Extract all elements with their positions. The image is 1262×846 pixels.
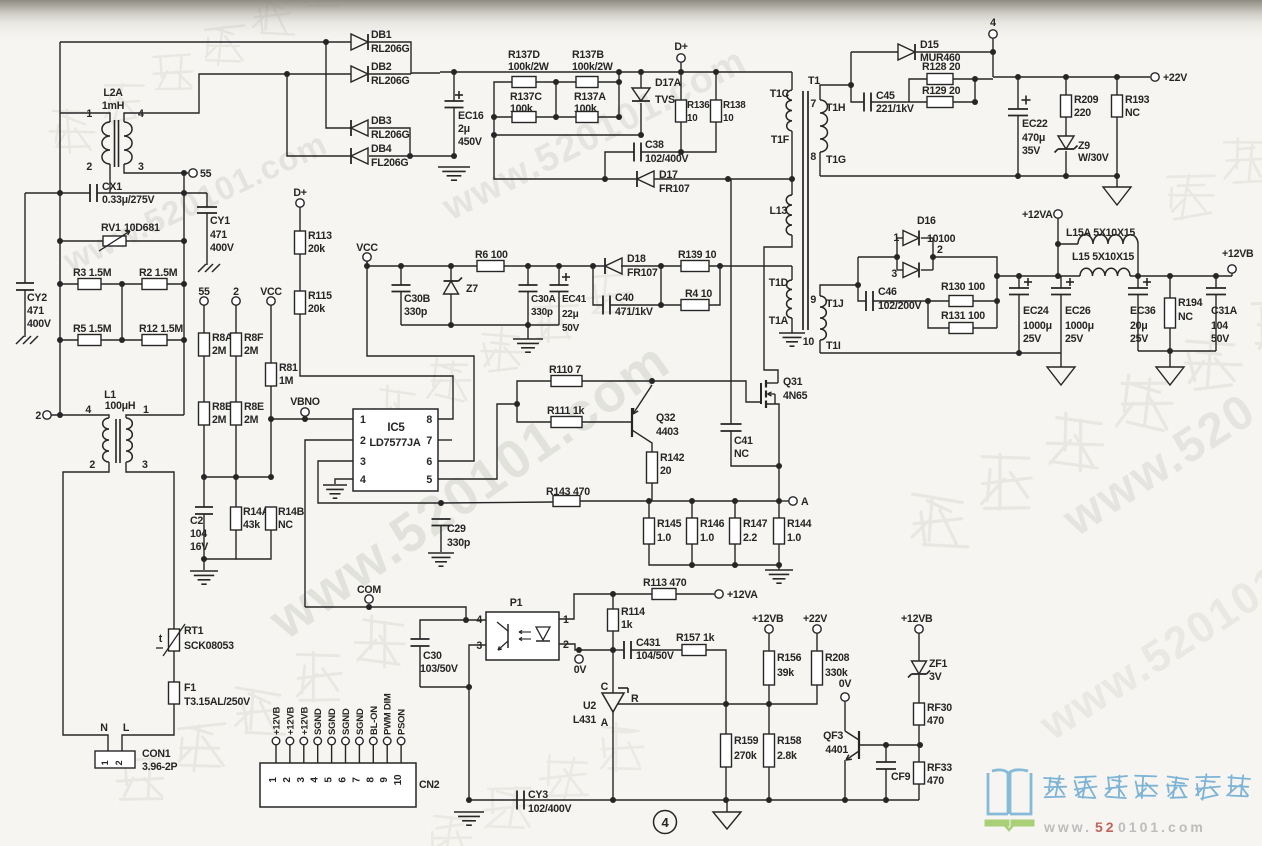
wire (918, 725, 920, 745)
resistor R113 (299, 207, 301, 231)
svg-text:+12VB: +12VB (272, 707, 283, 735)
node junction (201, 474, 207, 480)
svg-text:25V: 25V (1065, 333, 1083, 345)
capacitor C31A (1215, 276, 1217, 288)
TVS diode D17A (640, 72, 642, 88)
svg-text:9: 9 (379, 777, 390, 783)
svg-text:20: 20 (660, 465, 672, 477)
svg-text:R8F: R8F (244, 332, 264, 344)
node junction (1063, 173, 1069, 179)
resistor R2 (101, 283, 142, 285)
ground (765, 569, 793, 571)
wire DB2 row (287, 73, 351, 75)
svg-text:SCK08053: SCK08053 (184, 640, 234, 652)
svg-text:P1: P1 (510, 597, 523, 609)
pin 2 CN2 +12VB (286, 737, 294, 745)
svg-text:Z9: Z9 (1078, 140, 1090, 152)
wire (235, 356, 237, 402)
svg-text:ZF1: ZF1 (929, 658, 947, 670)
node junction (610, 647, 616, 653)
svg-text:C45: C45 (876, 90, 895, 102)
svg-text:NC: NC (1125, 107, 1140, 119)
svg-text:C2: C2 (190, 515, 203, 527)
wire D16 cathodes (921, 237, 933, 239)
svg-text:EC16: EC16 (458, 110, 484, 122)
svg-text:2: 2 (282, 777, 293, 783)
node junction (181, 190, 187, 196)
svg-text:R: R (631, 693, 639, 705)
svg-text:1000μ: 1000μ (1023, 320, 1052, 332)
svg-text:9: 9 (810, 294, 816, 306)
node junction (855, 282, 861, 288)
svg-text:1000μ: 1000μ (1065, 320, 1094, 332)
svg-text:39k: 39k (777, 667, 794, 679)
resistor R137D (512, 77, 536, 88)
svg-text:10: 10 (687, 113, 698, 124)
zener Z9 (1065, 117, 1067, 136)
watermark text (912, 494, 968, 547)
resistor R6 (477, 261, 504, 272)
svg-text:PSON: PSON (397, 709, 408, 735)
svg-text:R128 20: R128 20 (922, 61, 961, 73)
wire T1H pin7 (820, 85, 851, 100)
capacitor EC16 (453, 72, 455, 101)
svg-text:R2 1.5M: R2 1.5M (139, 267, 178, 279)
wire T1I pin10 (819, 340, 821, 353)
watermark text (1167, 175, 1214, 219)
resistor R156 (768, 633, 770, 651)
node junction (201, 556, 207, 562)
diode D17 (637, 171, 654, 187)
node junction (994, 273, 1000, 279)
connector CON1 (95, 751, 135, 768)
wire (725, 767, 727, 800)
svg-text:R147: R147 (743, 518, 768, 530)
svg-text:R156: R156 (777, 652, 802, 664)
watermark text (427, 816, 473, 846)
svg-text:EC22: EC22 (1022, 118, 1048, 130)
wire DB4 anode (369, 155, 454, 157)
wire (504, 265, 605, 267)
wire (612, 594, 614, 609)
pin 6 CN2 SGND (342, 737, 350, 745)
winding T1H T1G (820, 100, 827, 152)
resistor R208 (816, 633, 818, 651)
resistor R12 (101, 339, 142, 341)
svg-text:D17A: D17A (655, 77, 682, 89)
svg-text:EC36: EC36 (1130, 305, 1156, 317)
ground (190, 570, 218, 572)
pin 7 CN2 SGND (356, 737, 364, 745)
svg-text:R159: R159 (734, 735, 759, 747)
node 0V terminal (576, 647, 582, 653)
capacitor C431 (613, 649, 624, 651)
svg-text:3: 3 (138, 161, 144, 173)
transistor Q31 4N65 (760, 383, 762, 404)
resistor R194 (1169, 276, 1171, 298)
ground (1047, 367, 1075, 385)
svg-text:8: 8 (365, 777, 376, 783)
node junction (723, 701, 729, 707)
wire resistor bottoms (649, 544, 779, 565)
resistor R5 (60, 339, 78, 341)
svg-text:1.0: 1.0 (700, 532, 714, 544)
wire (681, 122, 716, 152)
wire IC5 pin3 (318, 461, 441, 503)
wire R129 right (953, 79, 975, 102)
resistor R111 (551, 417, 582, 428)
ground (438, 166, 470, 168)
svg-text:T1G: T1G (826, 154, 846, 166)
wire 22V return rail (820, 175, 1117, 177)
node junction (848, 82, 854, 88)
node junction (1055, 241, 1061, 247)
resistor R193 (1116, 77, 1118, 95)
ground (454, 811, 484, 813)
thermistor RT1 (169, 629, 180, 651)
wire VBNO row (271, 418, 353, 420)
svg-text:2: 2 (360, 435, 366, 447)
svg-text:CX1: CX1 (102, 181, 122, 193)
svg-text:RL206G: RL206G (371, 129, 410, 141)
svg-text:R193: R193 (1125, 94, 1150, 106)
wire (236, 530, 271, 559)
svg-text:www.520101.com: www.520101.com (258, 330, 681, 651)
node junction (972, 76, 978, 82)
svg-text:L15 5X10X15: L15 5X10X15 (1072, 251, 1134, 263)
svg-text:FR107: FR107 (659, 183, 690, 195)
wire DC+ rail (440, 71, 792, 73)
inductor L13 (786, 195, 792, 235)
svg-text:C46: C46 (878, 286, 897, 298)
wire (1137, 244, 1139, 276)
svg-text:VBNO: VBNO (290, 396, 320, 408)
watermark text (117, 758, 163, 799)
logo text (1044, 776, 1066, 797)
wire CX1 row (25, 192, 90, 194)
svg-text:R194: R194 (1178, 297, 1203, 309)
resistor R114 (608, 609, 619, 631)
svg-text:102/400V: 102/400V (528, 803, 572, 815)
wire D16 mid (858, 256, 897, 258)
svg-text:10: 10 (803, 336, 815, 348)
capacitor C30A (527, 266, 529, 285)
resistor R158 (768, 704, 770, 734)
svg-text:R14B: R14B (278, 506, 305, 518)
wire IC5 pin2 to COM (305, 440, 353, 607)
svg-text:4: 4 (360, 474, 366, 486)
svg-text:C431: C431 (636, 637, 661, 649)
node junction (181, 170, 187, 176)
svg-text:0101.com: 0101.com (1118, 819, 1206, 835)
ground (16, 336, 24, 344)
svg-text:1: 1 (86, 108, 92, 120)
node junction (463, 617, 469, 623)
svg-text:T1I: T1I (826, 340, 841, 352)
svg-text:T1C: T1C (770, 88, 790, 100)
svg-text:PWM DIM: PWM DIM (383, 693, 394, 735)
svg-text:100k: 100k (574, 103, 597, 115)
wire (680, 122, 682, 152)
ground (713, 812, 741, 829)
capacitor C30B (400, 266, 402, 285)
wire L2A pin2 (109, 164, 111, 193)
svg-text:R208: R208 (825, 652, 850, 664)
svg-text:20k: 20k (308, 303, 325, 315)
ground (323, 484, 347, 486)
wire (768, 685, 770, 704)
wire gate (652, 381, 761, 402)
wire +22V rail (993, 76, 1150, 78)
svg-text:+12VB: +12VB (285, 707, 296, 735)
svg-text:C: C (601, 681, 609, 693)
svg-text:R3 1.5M: R3 1.5M (73, 267, 112, 279)
svg-text:330p: 330p (404, 306, 428, 318)
svg-text:R8E: R8E (244, 401, 264, 413)
svg-text:471: 471 (27, 305, 44, 317)
wire VCC rail (366, 261, 368, 266)
wire L1 pin2 down (63, 462, 109, 751)
node junction (323, 39, 329, 45)
svg-text:2M: 2M (212, 414, 227, 426)
resistor R147 (730, 518, 741, 544)
wire P1 pin2 row (559, 644, 613, 650)
svg-text:N: N (100, 722, 107, 734)
svg-text:R114: R114 (621, 606, 645, 618)
svg-text:1: 1 (268, 777, 279, 783)
resistor R129 (909, 101, 927, 103)
wire R110 right (582, 380, 652, 382)
svg-text:2: 2 (563, 639, 569, 651)
svg-text:10D681: 10D681 (124, 222, 160, 234)
svg-text:4401: 4401 (825, 744, 848, 756)
svg-text:450V: 450V (458, 136, 482, 148)
wire (613, 593, 652, 595)
wire (973, 300, 997, 302)
svg-text:SGND: SGND (313, 708, 324, 735)
svg-text:52: 52 (1095, 819, 1117, 835)
svg-text:F1: F1 (184, 682, 196, 694)
svg-text:www.520101: www.520101 (1030, 556, 1262, 750)
node junction (776, 463, 782, 469)
svg-text:FR107: FR107 (627, 267, 658, 279)
wire L2A pin1 (60, 113, 110, 122)
svg-text:100μH: 100μH (105, 400, 136, 412)
svg-text:T1A: T1A (769, 315, 789, 327)
wire (660, 266, 662, 305)
svg-text:5: 5 (324, 777, 335, 783)
svg-text:+12VB: +12VB (752, 613, 784, 625)
wire 12VA drop (1057, 218, 1059, 276)
diode DB4 (351, 148, 368, 164)
svg-text:3.96-2P: 3.96-2P (142, 761, 178, 773)
wire cathode to rail (933, 257, 997, 328)
node junction (678, 69, 684, 75)
svg-text:NC: NC (734, 448, 749, 460)
node junction (602, 176, 608, 182)
diode DB1 (351, 34, 368, 50)
wire L2A pin3 to node 55 (124, 164, 188, 173)
svg-text:D+: D+ (674, 41, 687, 53)
ground (779, 332, 805, 334)
svg-text:R157 1k: R157 1k (676, 632, 715, 644)
winding T1J T1I (820, 296, 826, 340)
svg-text:A: A (801, 496, 809, 508)
svg-text:+12VA: +12VA (727, 589, 758, 601)
wire AC line top (60, 41, 326, 43)
ground (1156, 367, 1184, 385)
svg-text:1: 1 (100, 760, 110, 765)
capacitor C2 (195, 506, 213, 508)
capacitor EC22 (1017, 77, 1019, 109)
svg-text:EC26: EC26 (1065, 305, 1091, 317)
node junction (725, 176, 731, 182)
svg-text:DB1: DB1 (371, 29, 392, 41)
svg-text:4: 4 (662, 815, 670, 830)
ground (1103, 187, 1131, 205)
wire RT1 to F1 (173, 651, 175, 682)
svg-text:7: 7 (810, 98, 816, 110)
svg-text:SGND: SGND (327, 708, 338, 735)
svg-text:C30B: C30B (404, 293, 431, 305)
resistor R14A (235, 477, 237, 507)
node junction (1016, 273, 1022, 279)
node junction (438, 500, 444, 506)
pin 8 CN2 BL-ON (370, 737, 378, 745)
node junction (407, 153, 413, 159)
capacitor CY3 (516, 791, 518, 810)
svg-text:50V: 50V (562, 323, 580, 334)
svg-text:R158: R158 (777, 735, 802, 747)
resistor R110 (551, 376, 582, 387)
svg-text:DB3: DB3 (371, 115, 392, 127)
svg-text:+12VB: +12VB (1222, 248, 1254, 260)
ground (513, 338, 543, 340)
svg-text:1k: 1k (621, 619, 633, 631)
svg-text:2.8k: 2.8k (777, 750, 797, 762)
node junction (514, 401, 520, 407)
svg-text:270k: 270k (734, 750, 757, 762)
resistor R139 (681, 261, 709, 272)
capacitor C29 (432, 518, 451, 520)
pin 9 CN2 PWM DIM (383, 737, 391, 745)
svg-text:10: 10 (723, 113, 734, 124)
resistor R143 (441, 502, 553, 503)
wire (918, 784, 920, 800)
wire (299, 254, 301, 291)
wire IC5 pin5 (438, 404, 514, 479)
resistor R144 (774, 518, 785, 544)
wire (1130, 275, 1232, 277)
svg-text:C29: C29 (447, 523, 466, 535)
resistor R159 (725, 704, 727, 734)
svg-text:R110 7: R110 7 (549, 364, 581, 376)
svg-text:RT1: RT1 (184, 625, 204, 637)
svg-text:C30: C30 (423, 650, 442, 662)
svg-text:55: 55 (200, 168, 212, 180)
svg-text:1: 1 (360, 414, 366, 426)
svg-text:4: 4 (476, 614, 482, 626)
svg-text:T1F: T1F (771, 134, 790, 146)
wire VCC to IC5 pin6 (367, 261, 474, 461)
svg-text:330p: 330p (531, 307, 553, 318)
svg-text:R131 100: R131 100 (941, 310, 985, 322)
svg-text:DB2: DB2 (371, 61, 392, 73)
resistor R157 (682, 645, 706, 656)
node 55 (189, 169, 197, 177)
wire left AC vertical (59, 42, 61, 415)
svg-text:QF3: QF3 (823, 730, 843, 742)
svg-text:5: 5 (426, 474, 432, 486)
wire snubber left (494, 82, 641, 135)
wire QF3 base row (859, 744, 920, 746)
svg-text:2μ: 2μ (458, 123, 470, 135)
node junction (658, 302, 664, 308)
svg-text:7: 7 (351, 777, 362, 783)
svg-text:EC41: EC41 (562, 294, 587, 305)
node junction (451, 69, 457, 75)
node A terminal (779, 500, 789, 502)
svg-text:7: 7 (426, 435, 432, 447)
svg-text:T1H: T1H (826, 102, 845, 114)
ground (428, 552, 454, 554)
wire (768, 767, 770, 800)
svg-text:100k/2W: 100k/2W (572, 61, 613, 73)
diode DB2 (351, 66, 368, 82)
svg-text:BL-ON: BL-ON (369, 706, 380, 735)
capacitor C38 (605, 152, 634, 179)
svg-text:R111 1k: R111 1k (547, 405, 584, 417)
svg-text:10: 10 (393, 774, 404, 785)
svg-text:RV1: RV1 (101, 222, 121, 234)
svg-text:1.0: 1.0 (657, 532, 671, 544)
ground (198, 264, 206, 272)
node junction (610, 591, 616, 597)
svg-text:R142: R142 (660, 452, 685, 464)
wire R115 to IC5 pin8 (300, 314, 453, 419)
svg-text:470: 470 (927, 715, 944, 727)
pin 4 CN2 SGND (314, 737, 322, 745)
node junction (57, 281, 63, 287)
inductor L15A (1058, 243, 1078, 245)
wire 12V return (820, 352, 1061, 354)
wire L13 to drain (764, 235, 792, 383)
resistor R146 (687, 518, 698, 544)
svg-text:D15: D15 (920, 39, 939, 51)
wire R157 down (706, 650, 726, 704)
svg-text:R146: R146 (700, 518, 725, 530)
transformer T1 core (802, 91, 804, 330)
node junction (466, 684, 472, 690)
svg-text:CY2: CY2 (27, 292, 47, 304)
svg-text:4: 4 (990, 17, 996, 29)
resistor R8F (235, 305, 237, 333)
svg-text:22μ: 22μ (562, 309, 579, 320)
capacitor C45 (863, 93, 865, 112)
svg-text:R12 1.5M: R12 1.5M (139, 323, 183, 335)
svg-text:D+: D+ (293, 187, 306, 199)
svg-text:35V: 35V (1022, 145, 1040, 157)
wire L1 pin3 down (126, 462, 174, 629)
capacitor EC41 (558, 266, 560, 285)
svg-text:4: 4 (85, 404, 91, 416)
svg-text:R137D: R137D (508, 49, 540, 61)
resistor R136 (680, 62, 682, 100)
svg-text:RL206G: RL206G (371, 43, 410, 55)
wire R2R12 link (121, 284, 123, 340)
svg-text:R145: R145 (657, 518, 682, 530)
capacitor C46 (858, 285, 866, 301)
